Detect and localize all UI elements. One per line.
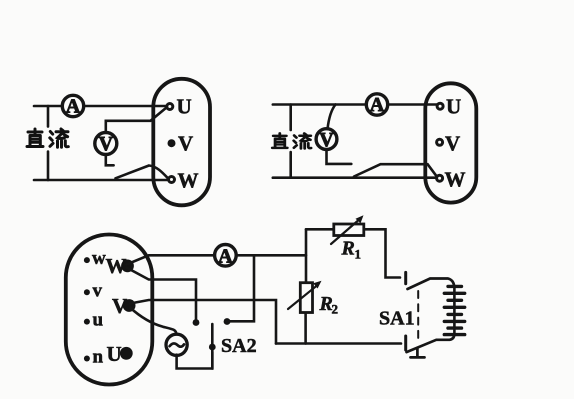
SA1 upper blade xyxy=(408,279,455,290)
svg-text:U: U xyxy=(446,95,461,119)
wire: left vertical supply upper (right) xyxy=(289,105,292,131)
label 直流 (DC) right xyxy=(272,133,311,148)
svg-text:V: V xyxy=(319,129,334,151)
svg-text:W: W xyxy=(178,169,199,193)
svg-text:V: V xyxy=(112,294,127,318)
AC source (~) xyxy=(166,334,187,355)
terminal W (big) xyxy=(106,254,134,278)
wire: bottom feed line (right) xyxy=(273,176,437,179)
terminal v (small) xyxy=(84,281,103,302)
wire: W to SA2 left contact xyxy=(127,268,197,320)
wire: voltmeter top probe to terminal U xyxy=(106,108,167,133)
wire: R1 right lead to SA1 upper contact xyxy=(364,229,400,277)
wire: V to AC source xyxy=(130,308,177,336)
SA2 left contact xyxy=(193,319,200,326)
terminal U (big) xyxy=(107,342,133,366)
SA2 blade xyxy=(211,324,214,369)
terminal U (top-left) xyxy=(167,95,192,119)
motor terminal block (top-right capsule) xyxy=(425,83,476,202)
wire: source bottom to SA2 blade xyxy=(177,352,213,369)
svg-text:u: u xyxy=(93,309,104,330)
wire: V to bottom rail corner xyxy=(130,300,276,344)
SA2 pivot dot xyxy=(209,344,216,351)
motor winding terminal board (big capsule) xyxy=(66,235,153,385)
svg-text:A: A xyxy=(66,96,81,118)
SA2 right contact xyxy=(224,318,231,325)
wire: voltmeter bottom probe stub xyxy=(106,155,114,166)
SA1 mechanical link (dashed) xyxy=(417,291,419,339)
wire: R1/R2 branch vertical xyxy=(305,229,308,283)
terminal W (top-right) xyxy=(437,167,466,191)
ammeter A (top-left) xyxy=(62,95,83,117)
label 直流 (DC) xyxy=(27,129,68,147)
svg-text:SA2: SA2 xyxy=(221,335,257,357)
svg-text:A: A xyxy=(218,245,233,267)
wire: SA2 right contact up to ammeter rail xyxy=(227,255,254,321)
wire: bottom feed line xyxy=(34,179,168,182)
svg-text:1: 1 xyxy=(355,247,362,262)
terminal n (small) xyxy=(84,347,104,368)
svg-text:V: V xyxy=(178,132,193,156)
label SA1 xyxy=(379,308,415,330)
wire: left vertical supply (lower segment) xyxy=(47,152,50,181)
wire: W to ammeter branch (node a) xyxy=(127,255,307,264)
wire: R2 bottom lead xyxy=(304,313,307,344)
rheostat R1 xyxy=(331,215,364,261)
SA1 handle stub xyxy=(411,348,425,358)
label SA2 xyxy=(221,335,257,357)
wire: R1 left lead xyxy=(306,228,333,231)
rheostat R2 xyxy=(288,281,338,317)
voltmeter V (top-left) xyxy=(95,133,117,156)
voltmeter V (top-right) xyxy=(316,129,337,151)
wire: voltmeter top probe (right) xyxy=(328,105,336,130)
svg-text:W: W xyxy=(445,167,466,191)
SA1 lower blade xyxy=(407,335,455,353)
wire: bottom rail to SA1 lower contact xyxy=(276,342,401,345)
svg-text:R: R xyxy=(341,238,355,260)
svg-text:V: V xyxy=(99,133,114,155)
svg-text:W: W xyxy=(106,254,127,278)
terminal U (top-right) xyxy=(437,95,461,119)
wire: left vertical supply (upper segment) xyxy=(47,106,50,127)
svg-text:U: U xyxy=(107,342,122,366)
SA1 upper contact bar xyxy=(404,272,407,283)
wire: left vertical supply lower (right) xyxy=(289,152,292,178)
load element (resistor stack) xyxy=(444,286,464,334)
svg-text:n: n xyxy=(93,347,104,368)
ammeter A (bottom) xyxy=(215,245,237,268)
wire: top feed line (right) xyxy=(273,103,437,106)
svg-text:U: U xyxy=(177,95,192,119)
terminal V (big) xyxy=(112,294,136,318)
motor terminal block (top-left capsule) xyxy=(153,79,210,206)
svg-text:V: V xyxy=(445,131,460,155)
switch blade into W xyxy=(116,166,168,179)
ammeter A (top-right) xyxy=(366,94,387,116)
svg-text:SA1: SA1 xyxy=(379,308,415,330)
terminal W (top-left) xyxy=(169,169,199,193)
SA1 lower contact bar xyxy=(404,336,407,350)
terminal u (small) xyxy=(84,309,104,330)
svg-text:w: w xyxy=(92,248,106,269)
wire: top feed line xyxy=(34,105,166,108)
terminal V (top-left, dot) xyxy=(168,132,194,156)
switch blade into W (right) xyxy=(354,164,437,177)
svg-text:v: v xyxy=(93,281,103,302)
svg-text:2: 2 xyxy=(332,302,339,317)
svg-text:A: A xyxy=(370,94,385,116)
wire: voltmeter bottom probe stub (right) xyxy=(327,149,352,164)
terminal w (small) xyxy=(84,248,106,269)
terminal V (top-right) xyxy=(437,131,461,155)
